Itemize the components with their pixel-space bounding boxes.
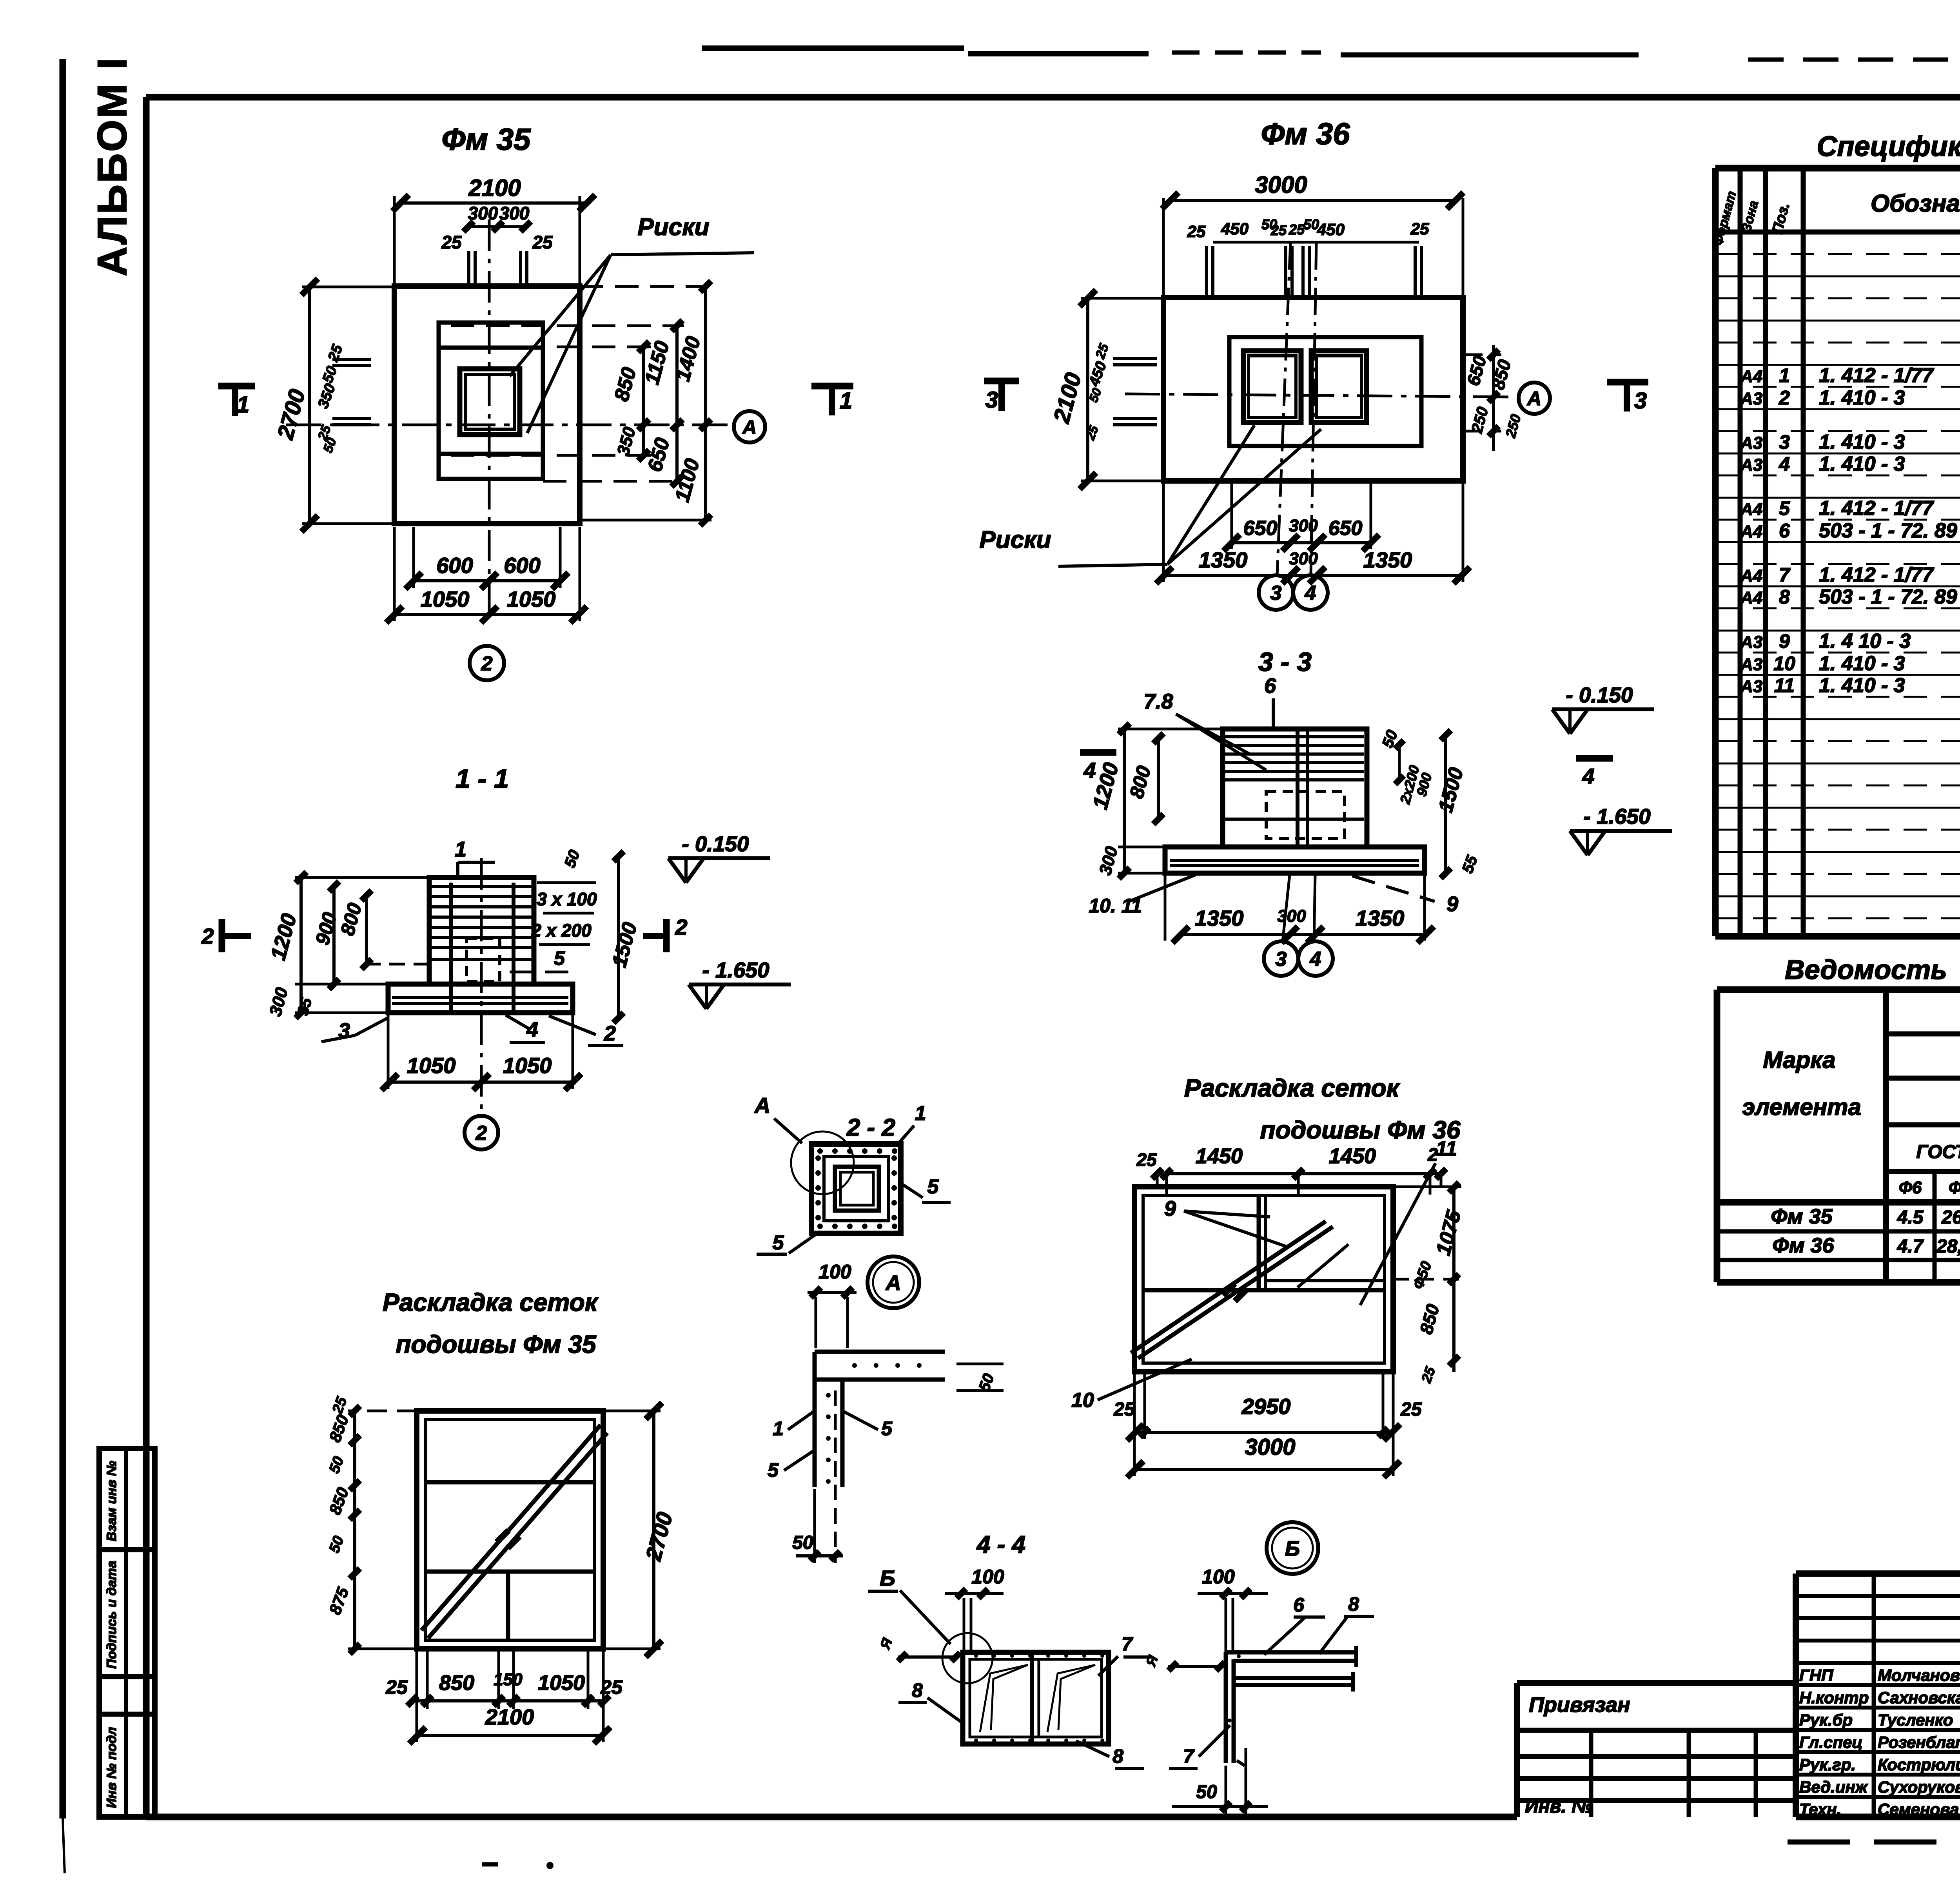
svg-text:А3: А3 [1740, 433, 1762, 453]
svg-text:6: 6 [1779, 520, 1790, 542]
svg-text:А: А [1526, 388, 1541, 410]
svg-text:25: 25 [1270, 222, 1287, 238]
svg-text:1. 410 - 3: 1. 410 - 3 [1819, 652, 1905, 675]
svg-text:1050: 1050 [503, 1053, 552, 1078]
svg-text:300: 300 [1289, 516, 1318, 535]
svg-text:2: 2 [604, 1022, 616, 1045]
svg-text:ГОСТ 5781 - 82*: ГОСТ 5781 - 82* [1916, 1142, 1960, 1162]
svg-text:25: 25 [385, 1676, 408, 1698]
svg-text:1050: 1050 [407, 1053, 456, 1078]
svg-text:А4: А4 [1740, 522, 1762, 541]
svg-text:2: 2 [481, 653, 493, 675]
svg-text:А: А [742, 416, 757, 438]
svg-text:1. 410 - 3: 1. 410 - 3 [1819, 431, 1905, 453]
svg-text:подошвы Фм 35: подошвы Фм 35 [396, 1330, 597, 1358]
svg-text:5: 5 [554, 947, 565, 969]
svg-text:Фм 35: Фм 35 [1771, 1205, 1833, 1228]
svg-text:450: 450 [1317, 220, 1345, 239]
svg-text:2: 2 [675, 915, 687, 939]
svg-text:Риски: Риски [979, 526, 1051, 553]
svg-text:8: 8 [1112, 1745, 1123, 1767]
svg-text:4: 4 [1779, 453, 1790, 475]
svg-text:100: 100 [1202, 1566, 1235, 1588]
svg-text:2: 2 [1779, 387, 1790, 409]
svg-text:50: 50 [792, 1532, 813, 1553]
svg-text:1350: 1350 [1356, 906, 1405, 930]
svg-text:1. 4 10 - 3: 1. 4 10 - 3 [1819, 630, 1911, 653]
svg-text:11: 11 [1436, 1137, 1457, 1160]
svg-text:10. 11: 10. 11 [1089, 895, 1142, 917]
svg-text:Подпись и дата: Подпись и дата [104, 1561, 119, 1669]
svg-text:5: 5 [773, 1231, 784, 1254]
svg-text:8: 8 [1348, 1593, 1359, 1615]
svg-text:2950: 2950 [1241, 1394, 1291, 1419]
svg-text:Сухорукова: Сухорукова [1878, 1778, 1960, 1796]
svg-text:7: 7 [1779, 564, 1791, 586]
svg-text:А4: А4 [1740, 588, 1762, 607]
svg-text:Инв. №: Инв. № [1525, 1796, 1593, 1817]
svg-text:Раскладка сеток: Раскладка сеток [1184, 1074, 1401, 1102]
svg-text:- 0.150: - 0.150 [682, 832, 749, 856]
svg-text:Б: Б [1285, 1537, 1300, 1560]
svg-text:50: 50 [1196, 1782, 1217, 1802]
svg-text:Рук.гр.: Рук.гр. [1799, 1755, 1856, 1774]
svg-text:650: 650 [1328, 517, 1363, 540]
svg-text:Розенблат: Розенблат [1878, 1733, 1960, 1751]
svg-text:3: 3 [1270, 582, 1282, 605]
svg-text:25: 25 [532, 232, 553, 252]
svg-text:25: 25 [1136, 1149, 1157, 1170]
svg-text:25: 25 [1187, 222, 1206, 241]
svg-text:1 - 1: 1 - 1 [456, 764, 509, 794]
svg-text:1. 410 - 3: 1. 410 - 3 [1819, 386, 1905, 409]
svg-text:503 - 1 - 72. 89: 503 - 1 - 72. 89 [1819, 586, 1957, 608]
svg-text:8: 8 [1779, 586, 1790, 608]
svg-text:Фм 35: Фм 35 [441, 122, 531, 156]
svg-text:1: 1 [915, 1102, 926, 1125]
svg-text:Инв № подл: Инв № подл [104, 1727, 119, 1808]
svg-text:4: 4 [1582, 764, 1594, 789]
svg-text:А4: А4 [1740, 367, 1762, 386]
svg-text:Гл.спец: Гл.спец [1799, 1733, 1862, 1751]
svg-text:1. 410 - 3: 1. 410 - 3 [1819, 674, 1905, 697]
svg-text:6: 6 [1293, 1594, 1305, 1616]
svg-text:1350: 1350 [1195, 906, 1244, 930]
svg-text:Раскладка сеток: Раскладка сеток [383, 1288, 599, 1316]
svg-text:25: 25 [1289, 221, 1305, 237]
svg-text:2: 2 [201, 924, 214, 948]
svg-text:1: 1 [840, 388, 852, 413]
svg-text:7: 7 [1122, 1633, 1133, 1655]
svg-text:4.5: 4.5 [1897, 1207, 1924, 1228]
svg-text:4 - 4: 4 - 4 [976, 1531, 1025, 1558]
svg-text:11: 11 [1774, 674, 1795, 696]
svg-text:Н.контр: Н.контр [1799, 1688, 1869, 1707]
svg-text:25: 25 [441, 232, 462, 252]
svg-text:3: 3 [985, 387, 998, 413]
svg-text:3000: 3000 [1245, 1434, 1295, 1460]
svg-text:Б: Б [880, 1566, 895, 1590]
svg-text:2100: 2100 [468, 175, 521, 201]
svg-text:1. 412 - 1/77: 1. 412 - 1/77 [1819, 497, 1934, 520]
svg-text:8: 8 [912, 1679, 923, 1701]
svg-text:1450: 1450 [1329, 1144, 1376, 1168]
svg-text:3: 3 [1779, 431, 1790, 453]
svg-text:300: 300 [499, 203, 530, 223]
svg-text:1: 1 [455, 838, 466, 861]
svg-text:2 - 2: 2 - 2 [846, 1114, 895, 1141]
svg-text:100: 100 [971, 1566, 1004, 1588]
svg-text:3: 3 [1276, 948, 1287, 971]
svg-text:Рук.бр: Рук.бр [1799, 1711, 1853, 1729]
svg-text:Спецификация фундаментов Фм: Спецификация фундаментов Фм35 , Фм 36 [1817, 131, 1960, 162]
svg-text:Молчанов: Молчанов [1878, 1666, 1960, 1684]
svg-text:3 - 3: 3 - 3 [1258, 647, 1312, 677]
svg-text:7.8: 7.8 [1143, 690, 1173, 713]
svg-text:4: 4 [1083, 758, 1096, 783]
svg-text:650: 650 [1243, 517, 1278, 540]
svg-text:5: 5 [881, 1418, 893, 1440]
svg-text:А: А [885, 1271, 901, 1294]
svg-text:3 х 100: 3 х 100 [537, 889, 597, 909]
svg-text:Фм 36: Фм 36 [1772, 1234, 1834, 1257]
svg-text:2 х 200: 2 х 200 [531, 920, 592, 941]
svg-text:А3: А3 [1740, 677, 1762, 696]
svg-text:Марка: Марка [1763, 1047, 1835, 1073]
svg-text:- 1.650: - 1.650 [1583, 804, 1651, 829]
svg-text:4: 4 [1305, 582, 1316, 605]
svg-text:5: 5 [1779, 497, 1790, 519]
svg-text:4.7: 4.7 [1897, 1236, 1924, 1257]
svg-text:подошвы Фм 36: подошвы Фм 36 [1260, 1116, 1461, 1144]
svg-text:26.4: 26.4 [1941, 1207, 1960, 1228]
svg-text:850: 850 [439, 1671, 474, 1695]
svg-text:Кострюлин: Кострюлин [1878, 1755, 1960, 1774]
svg-text:4: 4 [1310, 948, 1321, 971]
svg-text:Ведомость: Ведомость [1785, 954, 1947, 985]
svg-text:25: 25 [1410, 219, 1429, 238]
svg-text:3: 3 [338, 1019, 350, 1042]
svg-text:9: 9 [1446, 892, 1458, 916]
svg-text:2100: 2100 [485, 1704, 534, 1729]
svg-text:элемента: элемента [1742, 1094, 1861, 1120]
svg-text:28,45: 28,45 [1936, 1236, 1960, 1257]
svg-text:А: А [754, 1093, 770, 1118]
svg-text:Ф6: Ф6 [1899, 1178, 1922, 1197]
svg-text:Тусленко: Тусленко [1878, 1711, 1953, 1729]
svg-text:Риски: Риски [637, 214, 709, 241]
svg-text:3: 3 [1634, 388, 1647, 413]
svg-text:- 0.150: - 0.150 [1566, 683, 1633, 707]
svg-text:1350: 1350 [1363, 548, 1412, 572]
svg-text:5: 5 [768, 1459, 779, 1481]
svg-text:Привязан: Привязан [1529, 1693, 1630, 1717]
svg-text:А4: А4 [1740, 500, 1762, 519]
svg-text:АЛЬБОМ I: АЛЬБОМ I [89, 56, 135, 276]
svg-text:А3: А3 [1740, 655, 1762, 674]
svg-text:25: 25 [1400, 1399, 1422, 1420]
svg-text:1: 1 [773, 1418, 784, 1440]
svg-text:7: 7 [1183, 1745, 1195, 1767]
svg-text:Взам инв №: Взам инв № [104, 1461, 119, 1541]
svg-text:1050: 1050 [538, 1671, 585, 1695]
svg-text:А3: А3 [1740, 633, 1762, 652]
svg-text:А4: А4 [1740, 566, 1762, 586]
svg-text:9: 9 [1779, 630, 1790, 652]
svg-text:1: 1 [1779, 364, 1790, 386]
svg-text:10: 10 [1071, 1389, 1094, 1412]
svg-text:100: 100 [818, 1261, 851, 1283]
svg-text:2: 2 [475, 1122, 487, 1145]
svg-text:600: 600 [436, 553, 473, 578]
svg-text:300: 300 [1277, 906, 1306, 926]
svg-text:1450: 1450 [1196, 1144, 1243, 1168]
svg-text:600: 600 [504, 553, 540, 578]
svg-text:1: 1 [237, 392, 249, 417]
svg-text:6: 6 [1264, 674, 1276, 698]
svg-text:ГНП: ГНП [1799, 1666, 1833, 1684]
svg-text:4: 4 [526, 1018, 538, 1041]
svg-text:Вед.инж: Вед.инж [1799, 1778, 1868, 1796]
svg-text:9: 9 [1164, 1197, 1176, 1220]
svg-text:1. 410 - 3: 1. 410 - 3 [1819, 453, 1905, 475]
svg-text:450: 450 [1221, 219, 1249, 238]
svg-text:- 1.650: - 1.650 [702, 958, 769, 982]
svg-text:10: 10 [1773, 653, 1795, 674]
svg-text:25: 25 [1113, 1399, 1135, 1420]
svg-text:1. 412 - 1/77: 1. 412 - 1/77 [1819, 564, 1934, 586]
svg-text:1350: 1350 [1199, 548, 1248, 572]
svg-text:Фм 36: Фм 36 [1261, 116, 1350, 151]
svg-text:300: 300 [1289, 549, 1318, 568]
svg-text:Ф8: Ф8 [1949, 1178, 1960, 1197]
svg-text:1. 412 - 1/77: 1. 412 - 1/77 [1819, 364, 1934, 387]
svg-text:503 - 1 - 72. 89: 503 - 1 - 72. 89 [1819, 519, 1957, 542]
svg-text:А3: А3 [1740, 455, 1762, 475]
svg-text:Обозначение: Обозначение [1871, 190, 1960, 217]
svg-text:А3: А3 [1740, 389, 1762, 408]
svg-text:5: 5 [927, 1175, 939, 1198]
svg-text:Сахновская: Сахновская [1878, 1688, 1960, 1707]
svg-text:1050: 1050 [507, 587, 556, 611]
svg-text:3000: 3000 [1255, 172, 1307, 198]
svg-text:1050: 1050 [421, 587, 470, 611]
